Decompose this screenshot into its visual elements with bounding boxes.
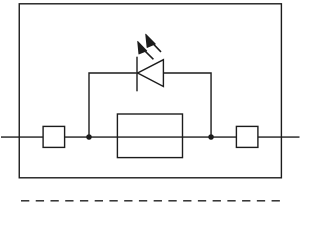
LED cathode bar <box>136 57 138 92</box>
fuse holder <box>117 114 182 158</box>
clamp terminal left <box>43 126 65 147</box>
node right junction <box>208 134 214 140</box>
terminal block outline frame <box>19 4 281 178</box>
mounting rail dashed line <box>21 200 280 202</box>
wire right riser <box>163 73 211 137</box>
wire left box to fuse <box>65 136 237 138</box>
wire left riser <box>89 73 136 137</box>
LED arrow upper <box>146 34 161 52</box>
LED arrow lower <box>138 41 154 59</box>
LED triangle <box>138 60 164 87</box>
clamp terminal right <box>236 126 258 147</box>
node left junction <box>86 134 92 140</box>
wire left lead <box>1 136 43 138</box>
wire right lead <box>258 136 300 138</box>
